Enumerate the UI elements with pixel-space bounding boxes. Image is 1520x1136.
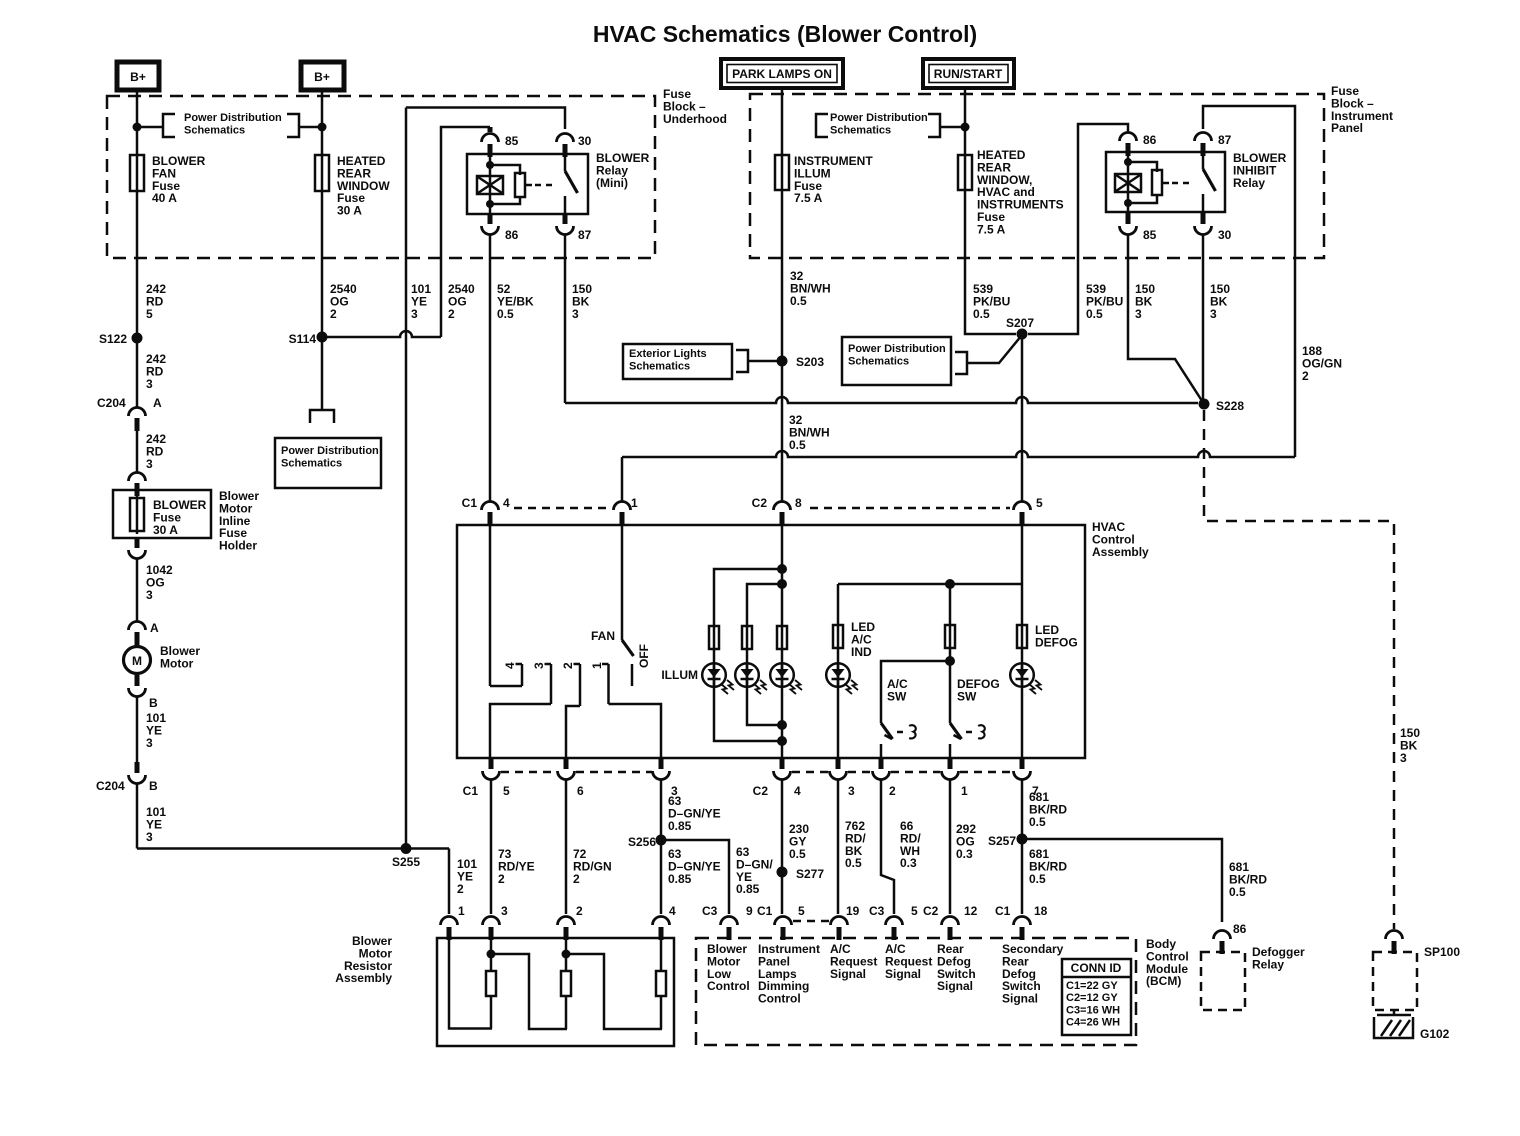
fuse BLOWER 30A xyxy=(130,498,144,531)
svg-text:DEFOG: DEFOG xyxy=(1035,635,1078,649)
connector resistor asm pin 2 xyxy=(558,917,575,926)
wire fuse holder to motor xyxy=(136,558,139,622)
connector resistor asm pin 4 xyxy=(653,917,670,926)
wire C1-3 to S256 xyxy=(660,779,663,914)
exterior lights schematics box xyxy=(623,344,732,379)
svg-text:0.5: 0.5 xyxy=(1086,307,1103,321)
svg-text:8: 8 xyxy=(795,496,802,510)
svg-text:Assembly: Assembly xyxy=(1092,545,1149,559)
svg-text:3: 3 xyxy=(146,457,153,471)
power distribution schematics box (middle) xyxy=(310,410,334,423)
a/c switch dash xyxy=(897,731,906,734)
wire S114 to relay coil feed (hop over 101 YE) xyxy=(322,331,441,337)
connector SP100 xyxy=(1386,931,1403,940)
wire park lamps to S203 xyxy=(781,88,784,361)
connector HVAC C1 pin 4 xyxy=(482,502,499,511)
wire contact4 bus xyxy=(490,685,522,688)
svg-text:OFF: OFF xyxy=(637,644,651,668)
svg-text:FAN: FAN xyxy=(591,629,615,643)
connector HVAC C1 pin 3 xyxy=(653,771,670,780)
wire led feed bus xyxy=(838,583,1022,586)
LED illum 1 xyxy=(702,663,726,687)
resistor blower 3 xyxy=(656,971,666,996)
svg-text:0.5: 0.5 xyxy=(789,847,806,861)
svg-text:C4=26 WH: C4=26 WH xyxy=(1066,1017,1120,1029)
relay resistor tick xyxy=(525,184,532,187)
node illum branch 1 xyxy=(777,564,787,574)
svg-text:SP100: SP100 xyxy=(1424,945,1460,959)
svg-text:3: 3 xyxy=(146,830,153,844)
wire led a/c branch xyxy=(837,584,840,758)
fuse HEATED REAR WINDOW HVAC INSTR xyxy=(958,155,972,190)
wire C2-4 to BCM C1-5 xyxy=(781,779,784,914)
wire S255 to resistor pin1 xyxy=(448,849,451,915)
wire C2-7 to S257 xyxy=(1021,779,1024,914)
wire S257 to defogger relay xyxy=(1022,839,1222,922)
svg-text:1: 1 xyxy=(458,904,465,918)
svg-text:Panel: Panel xyxy=(1331,121,1363,135)
fuse block instrument panel dashed box xyxy=(750,94,1324,258)
svg-text:85: 85 xyxy=(505,134,519,148)
svg-text:2: 2 xyxy=(1302,369,1309,383)
relay switch xyxy=(564,154,567,171)
svg-text:4: 4 xyxy=(503,662,517,669)
svg-text:C1: C1 xyxy=(463,784,479,798)
svg-text:0.85: 0.85 xyxy=(668,819,692,833)
wire 150 BK horizontal to S228 (hops) xyxy=(565,397,1198,403)
svg-text:B: B xyxy=(149,779,158,793)
node illum return 1 xyxy=(777,736,787,746)
wire S207 down to C2-5 xyxy=(1021,334,1024,502)
svg-text:2: 2 xyxy=(573,872,580,886)
svg-text:Exterior Lights: Exterior Lights xyxy=(629,348,707,360)
exterior lights bracket xyxy=(736,350,748,372)
fan contact 2 xyxy=(574,663,581,666)
splice S277 xyxy=(777,867,788,878)
svg-text:Control: Control xyxy=(707,979,750,993)
wire S122 to C204 A xyxy=(136,338,139,408)
wire illum led2 branch xyxy=(747,584,782,725)
wire a/c sw branch xyxy=(881,661,950,723)
svg-text:12: 12 xyxy=(964,904,978,918)
svg-text:Relay: Relay xyxy=(1233,176,1265,190)
a/c switch blade xyxy=(881,723,893,739)
wire run/start to S207 xyxy=(965,88,1016,334)
wire resistor asm link1 xyxy=(491,954,567,1029)
svg-text:C3: C3 xyxy=(869,904,885,918)
wire pin1 to fan switch xyxy=(621,523,624,640)
connector BCM pin 19 xyxy=(831,917,848,926)
wire C2-8 into box xyxy=(781,523,784,758)
fan contact OFF xyxy=(631,664,634,686)
svg-text:7.5 A: 7.5 A xyxy=(977,222,1006,236)
wire resistor asm pin3 chain xyxy=(490,938,493,971)
wire resistor2 bottom xyxy=(565,996,568,1029)
svg-text:5: 5 xyxy=(911,904,918,918)
wire a/c sw to C2-2 xyxy=(880,744,883,758)
defogger relay dashed box xyxy=(1201,952,1245,1010)
svg-text:86: 86 xyxy=(1143,133,1157,147)
connector HVAC C2 pin 3 xyxy=(830,771,847,780)
svg-text:C1: C1 xyxy=(757,904,773,918)
svg-text:2: 2 xyxy=(457,882,464,896)
svg-text:C3=16 WH: C3=16 WH xyxy=(1066,1004,1120,1016)
connector blower relay pin 87 xyxy=(557,226,574,235)
svg-text:0.5: 0.5 xyxy=(1029,872,1046,886)
svg-text:Signal: Signal xyxy=(885,967,921,981)
svg-text:3: 3 xyxy=(146,377,153,391)
wire C1-4 into box xyxy=(489,523,492,686)
svg-text:Schematics: Schematics xyxy=(848,355,909,367)
svg-text:5: 5 xyxy=(1036,496,1043,510)
svg-text:Power Distribution: Power Distribution xyxy=(184,112,282,124)
fuse HEATED REAR WINDOW 30A xyxy=(315,155,329,191)
connector BCM pin 18 C1 xyxy=(1014,917,1031,926)
svg-text:M: M xyxy=(132,654,142,668)
node illum return 2 xyxy=(777,720,787,730)
wire contact2 to C1-6 xyxy=(566,706,580,758)
svg-text:Schematics: Schematics xyxy=(184,124,245,136)
svg-text:3: 3 xyxy=(848,784,855,798)
connector inhibit relay pin 30 xyxy=(1195,226,1212,235)
inhibit coil junction top xyxy=(1124,158,1132,166)
svg-text:0.3: 0.3 xyxy=(956,847,973,861)
relay blower mini box xyxy=(467,154,588,214)
svg-text:Holder: Holder xyxy=(219,539,257,553)
svg-text:Motor: Motor xyxy=(160,656,194,670)
svg-text:86: 86 xyxy=(1233,922,1247,936)
svg-text:S228: S228 xyxy=(1216,399,1244,413)
svg-text:Schematics: Schematics xyxy=(281,457,342,469)
svg-text:0.5: 0.5 xyxy=(973,307,990,321)
svg-text:S207: S207 xyxy=(1006,316,1034,330)
svg-text:0.5: 0.5 xyxy=(790,294,807,308)
wire S256 branch to BCM C3-9 xyxy=(661,840,729,914)
svg-text:Underhood: Underhood xyxy=(663,112,727,126)
connector blower relay pin 30 xyxy=(557,134,574,143)
svg-text:IND: IND xyxy=(851,645,872,659)
wire 52 YE/BK pin86 to HVAC C1-4 xyxy=(489,234,492,502)
wire C2-5 into box xyxy=(1021,523,1024,758)
wire B+1 to S122 xyxy=(136,90,139,338)
connector HVAC C1 pin 6 xyxy=(558,771,575,780)
connector BCM pin 9 C3 xyxy=(721,917,738,926)
PARK LAMPS ON terminal xyxy=(721,59,843,88)
svg-text:C2: C2 xyxy=(752,496,768,510)
inhibit parallel resistor xyxy=(1152,170,1162,195)
SP100 dashed box xyxy=(1373,952,1417,1010)
wire motor B to C204 B xyxy=(136,696,139,762)
svg-text:40 A: 40 A xyxy=(152,191,177,205)
body control module dashed box xyxy=(696,938,1136,1045)
relay blower inhibit box xyxy=(1106,152,1225,212)
connector resistor asm pin 3 xyxy=(483,917,500,926)
node junction at power distribution tap left xyxy=(133,123,142,132)
svg-text:7.5 A: 7.5 A xyxy=(794,191,823,205)
connector BCM pin 12 xyxy=(942,917,959,926)
svg-text:C2: C2 xyxy=(923,904,939,918)
wire through fuse holder xyxy=(136,494,139,534)
svg-text:0.5: 0.5 xyxy=(1229,885,1246,899)
connector link dash C1-6/3 xyxy=(576,771,652,774)
svg-text:Power Distribution: Power Distribution xyxy=(848,343,946,355)
svg-text:3: 3 xyxy=(411,307,418,321)
CONN ID table xyxy=(1062,959,1131,1035)
blower motor inline fuse holder box xyxy=(113,490,211,538)
splice S122 xyxy=(132,333,143,344)
wire defog resistor down xyxy=(949,584,952,723)
connector inhibit relay pin 87 xyxy=(1195,133,1212,142)
svg-text:G102: G102 xyxy=(1420,1027,1450,1041)
svg-text:Control: Control xyxy=(758,992,801,1006)
svg-text:C1: C1 xyxy=(462,496,478,510)
svg-text:Schematics: Schematics xyxy=(830,124,891,136)
svg-text:3: 3 xyxy=(572,307,579,321)
svg-text:18: 18 xyxy=(1034,904,1048,918)
connector link dash BCM C1-5 xyxy=(793,920,830,923)
resistor illum 3 xyxy=(777,626,787,649)
svg-text:C2: C2 xyxy=(753,784,769,798)
node junction at power distribution tap right xyxy=(318,123,327,132)
svg-text:30: 30 xyxy=(578,134,592,148)
resistor illum 1 xyxy=(709,626,719,649)
svg-text:2: 2 xyxy=(330,307,337,321)
svg-text:S122: S122 xyxy=(99,332,127,346)
connector fuse holder bottom xyxy=(129,550,146,559)
svg-text:0.5: 0.5 xyxy=(1029,815,1046,829)
fuse INSTRUMENT ILLUM xyxy=(775,155,789,190)
B+ terminal 1 xyxy=(117,62,159,90)
wire to power distribution bracket (ip) xyxy=(940,126,965,129)
svg-text:Signal: Signal xyxy=(1002,992,1038,1006)
connector inhibit relay pin 86 xyxy=(1120,133,1137,142)
svg-text:0.5: 0.5 xyxy=(845,856,862,870)
defog switch blade xyxy=(950,723,962,739)
fan contact 4 xyxy=(516,663,523,666)
splice S114 xyxy=(317,332,328,343)
connector inline fuse holder top xyxy=(129,473,146,482)
svg-text:B: B xyxy=(149,696,158,710)
resistor blower 1 xyxy=(486,971,496,996)
fan switch blade xyxy=(622,640,634,656)
connector link dash C2-4/3 xyxy=(792,771,829,774)
svg-text:1: 1 xyxy=(590,662,604,669)
svg-text:C3: C3 xyxy=(702,904,718,918)
svg-text:87: 87 xyxy=(1218,133,1232,147)
defog switch hook xyxy=(978,725,985,738)
inhibit coil wire xyxy=(1127,152,1130,212)
node defog resistor tap xyxy=(945,579,955,589)
wire C1-6 to resistor pin2 xyxy=(565,779,568,914)
node resistor asm tap2 xyxy=(562,950,571,959)
svg-text:S257: S257 xyxy=(988,834,1016,848)
LED illum 3 xyxy=(770,663,794,687)
svg-text:ILLUM: ILLUM xyxy=(661,668,698,682)
svg-text:S256: S256 xyxy=(628,835,656,849)
wire bracket to B+2 wire xyxy=(299,126,322,129)
wire pin85 150BK to S228 xyxy=(1128,234,1204,404)
svg-text:(BCM): (BCM) xyxy=(1146,974,1181,988)
svg-text:SW: SW xyxy=(887,689,907,703)
ground G102 xyxy=(1393,1010,1396,1015)
blower motor M xyxy=(124,647,151,674)
wire S255 horizontal xyxy=(137,847,449,850)
splice S207 xyxy=(1017,329,1028,340)
connector HVAC C2 pin 5 xyxy=(1014,502,1031,511)
wire top feed to relay pin 30 xyxy=(406,108,565,130)
svg-text:S203: S203 xyxy=(796,355,824,369)
wire resistor3 bottom xyxy=(660,996,663,1029)
relay parallel resistor loop xyxy=(490,165,520,175)
svg-text:B+: B+ xyxy=(130,70,146,84)
svg-text:0.85: 0.85 xyxy=(736,882,760,896)
wire C204B down to S255 line xyxy=(136,783,139,849)
resistor blower 2 xyxy=(561,971,571,996)
svg-text:HVAC Schematics (Blower Contro: HVAC Schematics (Blower Control) xyxy=(593,21,977,47)
svg-text:Schematics: Schematics xyxy=(629,360,690,372)
splice S255 xyxy=(401,843,412,854)
svg-text:Signal: Signal xyxy=(830,967,866,981)
wire contact3 to C1-5 xyxy=(490,704,551,758)
wire resistor asm pin4 chain xyxy=(660,938,663,971)
connector inhibit relay pin 85 xyxy=(1120,226,1137,235)
resistor defog sw xyxy=(945,625,955,648)
connector HVAC C2 pin 7 xyxy=(1014,771,1031,780)
svg-text:RUN/START: RUN/START xyxy=(934,67,1003,81)
svg-text:0.85: 0.85 xyxy=(668,872,692,886)
fuse BLOWER FAN 40A xyxy=(130,155,144,191)
node resistor asm tap1 xyxy=(487,950,496,959)
svg-text:30 A: 30 A xyxy=(153,523,178,537)
HVAC control assembly box xyxy=(457,525,1085,758)
wire 150 BK pin87 down xyxy=(564,234,567,403)
svg-text:3: 3 xyxy=(1210,307,1217,321)
blower motor resistor assembly box xyxy=(437,938,674,1046)
connector C204 pin B xyxy=(135,762,140,773)
connector blower motor pin B xyxy=(129,688,146,697)
connector HVAC C1 pin 5 xyxy=(483,771,500,780)
svg-text:C1: C1 xyxy=(995,904,1011,918)
connector HVAC C2 pin 8 xyxy=(774,502,791,511)
resistor led defog xyxy=(1017,625,1027,648)
svg-text:S114: S114 xyxy=(289,332,317,346)
svg-text:86: 86 xyxy=(505,228,519,242)
wire defog sw to C2-1 xyxy=(949,744,952,758)
wire resistor1 bottom xyxy=(490,996,493,1029)
resistor led a/c xyxy=(833,625,843,648)
B+ terminal 2 xyxy=(301,62,344,90)
svg-text:3: 3 xyxy=(532,662,546,669)
svg-text:6: 6 xyxy=(577,784,584,798)
fan contact 1 xyxy=(602,663,609,666)
RUN/START terminal xyxy=(923,59,1014,88)
svg-text:C204: C204 xyxy=(97,396,126,410)
relay dashed link xyxy=(535,184,557,187)
connector C204 pin A xyxy=(129,408,146,417)
svg-text:4: 4 xyxy=(794,784,801,798)
power distribution schematics reference (fuse block ip) xyxy=(816,114,828,137)
power dist bracket to S207 xyxy=(955,352,967,374)
connector blower relay pin 86 xyxy=(482,226,499,235)
svg-text:C1=22 GY: C1=22 GY xyxy=(1066,980,1118,992)
node junction run/start tap xyxy=(961,123,970,132)
fan contact 3 xyxy=(545,663,552,666)
connector link dash C2-2/1 xyxy=(891,771,940,774)
inhibit parallel resistor loop xyxy=(1128,162,1157,172)
svg-text:3: 3 xyxy=(1400,751,1407,765)
LED illum 2 xyxy=(735,663,759,687)
relay parallel resistor xyxy=(515,173,525,197)
svg-text:Power Distribution: Power Distribution xyxy=(830,112,928,124)
defog switch dash xyxy=(966,731,975,734)
dashed wire S228 to SP100 xyxy=(1204,410,1394,929)
svg-text:5: 5 xyxy=(146,307,153,321)
connector HVAC C2 pin 4 xyxy=(774,771,791,780)
svg-text:A: A xyxy=(150,621,159,635)
connector link dash C2-3/2 xyxy=(848,771,872,774)
wire resistor asm pin1 xyxy=(449,938,492,1029)
inhibit coil junction bottom xyxy=(1124,199,1132,207)
svg-text:0.3: 0.3 xyxy=(900,856,917,870)
svg-text:C204: C204 xyxy=(96,779,125,793)
wire pin30 150BK to S228 xyxy=(1202,234,1205,399)
svg-text:3: 3 xyxy=(1135,307,1142,321)
svg-text:0.5: 0.5 xyxy=(497,307,514,321)
fuse block underhood dashed box xyxy=(107,96,655,258)
svg-text:A: A xyxy=(153,396,162,410)
svg-text:2: 2 xyxy=(448,307,455,321)
inhibit relay dashed link xyxy=(1172,182,1194,185)
connector link dash C2-1/7 xyxy=(960,771,1012,774)
connector resistor asm pin 1 xyxy=(441,917,458,926)
svg-text:30 A: 30 A xyxy=(337,204,362,218)
relay coil junction bottom xyxy=(486,200,494,208)
svg-text:1: 1 xyxy=(961,784,968,798)
wire pin87 to 188 wire xyxy=(1203,106,1295,457)
svg-text:CONN ID: CONN ID xyxy=(1071,961,1122,975)
connector blower relay pin 85 xyxy=(482,134,499,143)
wire C2-3 to BCM 19 xyxy=(837,779,840,914)
svg-text:4: 4 xyxy=(503,496,510,510)
svg-text:3: 3 xyxy=(146,736,153,750)
wire up to blower relay pin 85 xyxy=(441,127,490,337)
svg-text:3: 3 xyxy=(501,904,508,918)
wire C204A to fuse holder xyxy=(136,429,139,473)
svg-text:2: 2 xyxy=(561,662,575,669)
splice S228 xyxy=(1199,399,1210,410)
inhibit resistor tick xyxy=(1162,182,1169,185)
wire 188 OG/GN to HVAC pin1 (hops) xyxy=(622,451,1295,457)
wire B+2 through fuse to S114 xyxy=(321,90,324,337)
splice S256 xyxy=(656,835,667,846)
wire S203 down to C2-8 xyxy=(781,361,784,502)
connector BCM pin 5 C1 xyxy=(775,917,792,926)
connector blower motor pin A xyxy=(129,622,146,631)
svg-text:SW: SW xyxy=(957,689,977,703)
connector defogger relay pin 86 xyxy=(1214,931,1231,940)
svg-text:0.5: 0.5 xyxy=(789,438,806,452)
svg-text:5: 5 xyxy=(798,904,805,918)
node illum branch 2 xyxy=(777,579,787,589)
wire S114 down to power distribution bracket xyxy=(321,337,324,410)
svg-text:30: 30 xyxy=(1218,228,1232,242)
connector BCM pin 5 C2 xyxy=(886,917,903,926)
wire C2-1 to BCM C2-12 xyxy=(949,779,952,914)
connector HVAC C2 pin 2 xyxy=(873,771,890,780)
inhibit relay coil xyxy=(1115,174,1141,192)
connector link dashes C2 top xyxy=(810,507,1010,510)
wire C2-2 to BCM C3-5 xyxy=(881,779,894,914)
